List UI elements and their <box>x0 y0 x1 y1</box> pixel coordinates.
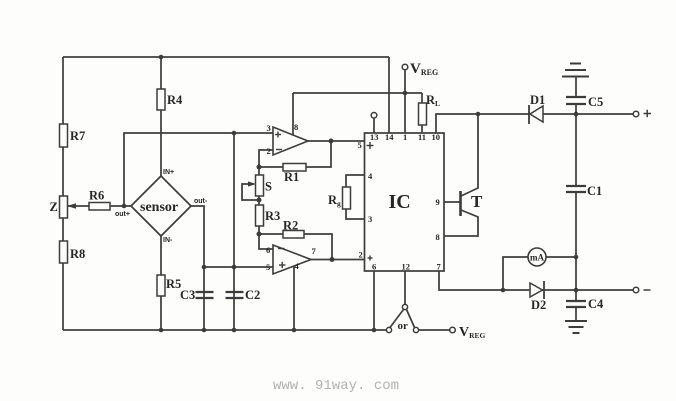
svg-text:2: 2 <box>359 250 363 260</box>
svg-text:C1: C1 <box>587 184 602 198</box>
svg-text:S: S <box>265 180 272 194</box>
svg-text:D1: D1 <box>530 93 545 107</box>
svg-text:9: 9 <box>436 197 440 207</box>
svg-text:10: 10 <box>432 132 441 142</box>
svg-text:www. 91way. com: www. 91way. com <box>273 378 399 394</box>
svg-text:6: 6 <box>372 262 376 272</box>
svg-text:Z: Z <box>50 200 58 214</box>
svg-text:mA: mA <box>530 253 544 263</box>
svg-text:out+: out+ <box>115 211 130 218</box>
svg-text:2: 2 <box>267 146 271 156</box>
svg-text:C3: C3 <box>180 288 195 302</box>
svg-text:12: 12 <box>402 262 411 272</box>
svg-text:T: T <box>471 192 483 211</box>
svg-text:or: or <box>398 320 409 332</box>
svg-text:R5: R5 <box>166 277 181 291</box>
svg-text:8: 8 <box>436 232 440 242</box>
svg-text:8: 8 <box>294 122 298 132</box>
svg-text:C2: C2 <box>245 288 260 302</box>
svg-text:R6: R6 <box>89 189 104 203</box>
svg-text:1: 1 <box>403 132 407 142</box>
svg-text:R7: R7 <box>70 129 85 143</box>
svg-text:R8: R8 <box>70 247 85 261</box>
svg-text:3: 3 <box>368 214 372 224</box>
svg-text:C5: C5 <box>588 95 603 109</box>
svg-text:3: 3 <box>267 123 271 133</box>
svg-text:R2: R2 <box>283 219 298 233</box>
svg-text:R3: R3 <box>265 209 280 223</box>
svg-text:D2: D2 <box>531 298 546 312</box>
svg-text:IC: IC <box>389 191 411 213</box>
svg-text:13: 13 <box>370 132 379 142</box>
svg-text:sensor: sensor <box>140 200 178 215</box>
svg-text:IN+: IN+ <box>163 169 174 176</box>
svg-text:14: 14 <box>385 132 394 142</box>
svg-text:R1: R1 <box>284 170 299 184</box>
svg-text:6: 6 <box>266 245 270 255</box>
svg-text:C4: C4 <box>588 297 604 311</box>
svg-text:5: 5 <box>266 262 270 272</box>
svg-text:5: 5 <box>358 140 362 150</box>
svg-text:11: 11 <box>418 132 426 142</box>
svg-text:IN-: IN- <box>163 237 173 244</box>
svg-text:R4: R4 <box>167 93 183 107</box>
svg-text:out-: out- <box>194 198 208 205</box>
